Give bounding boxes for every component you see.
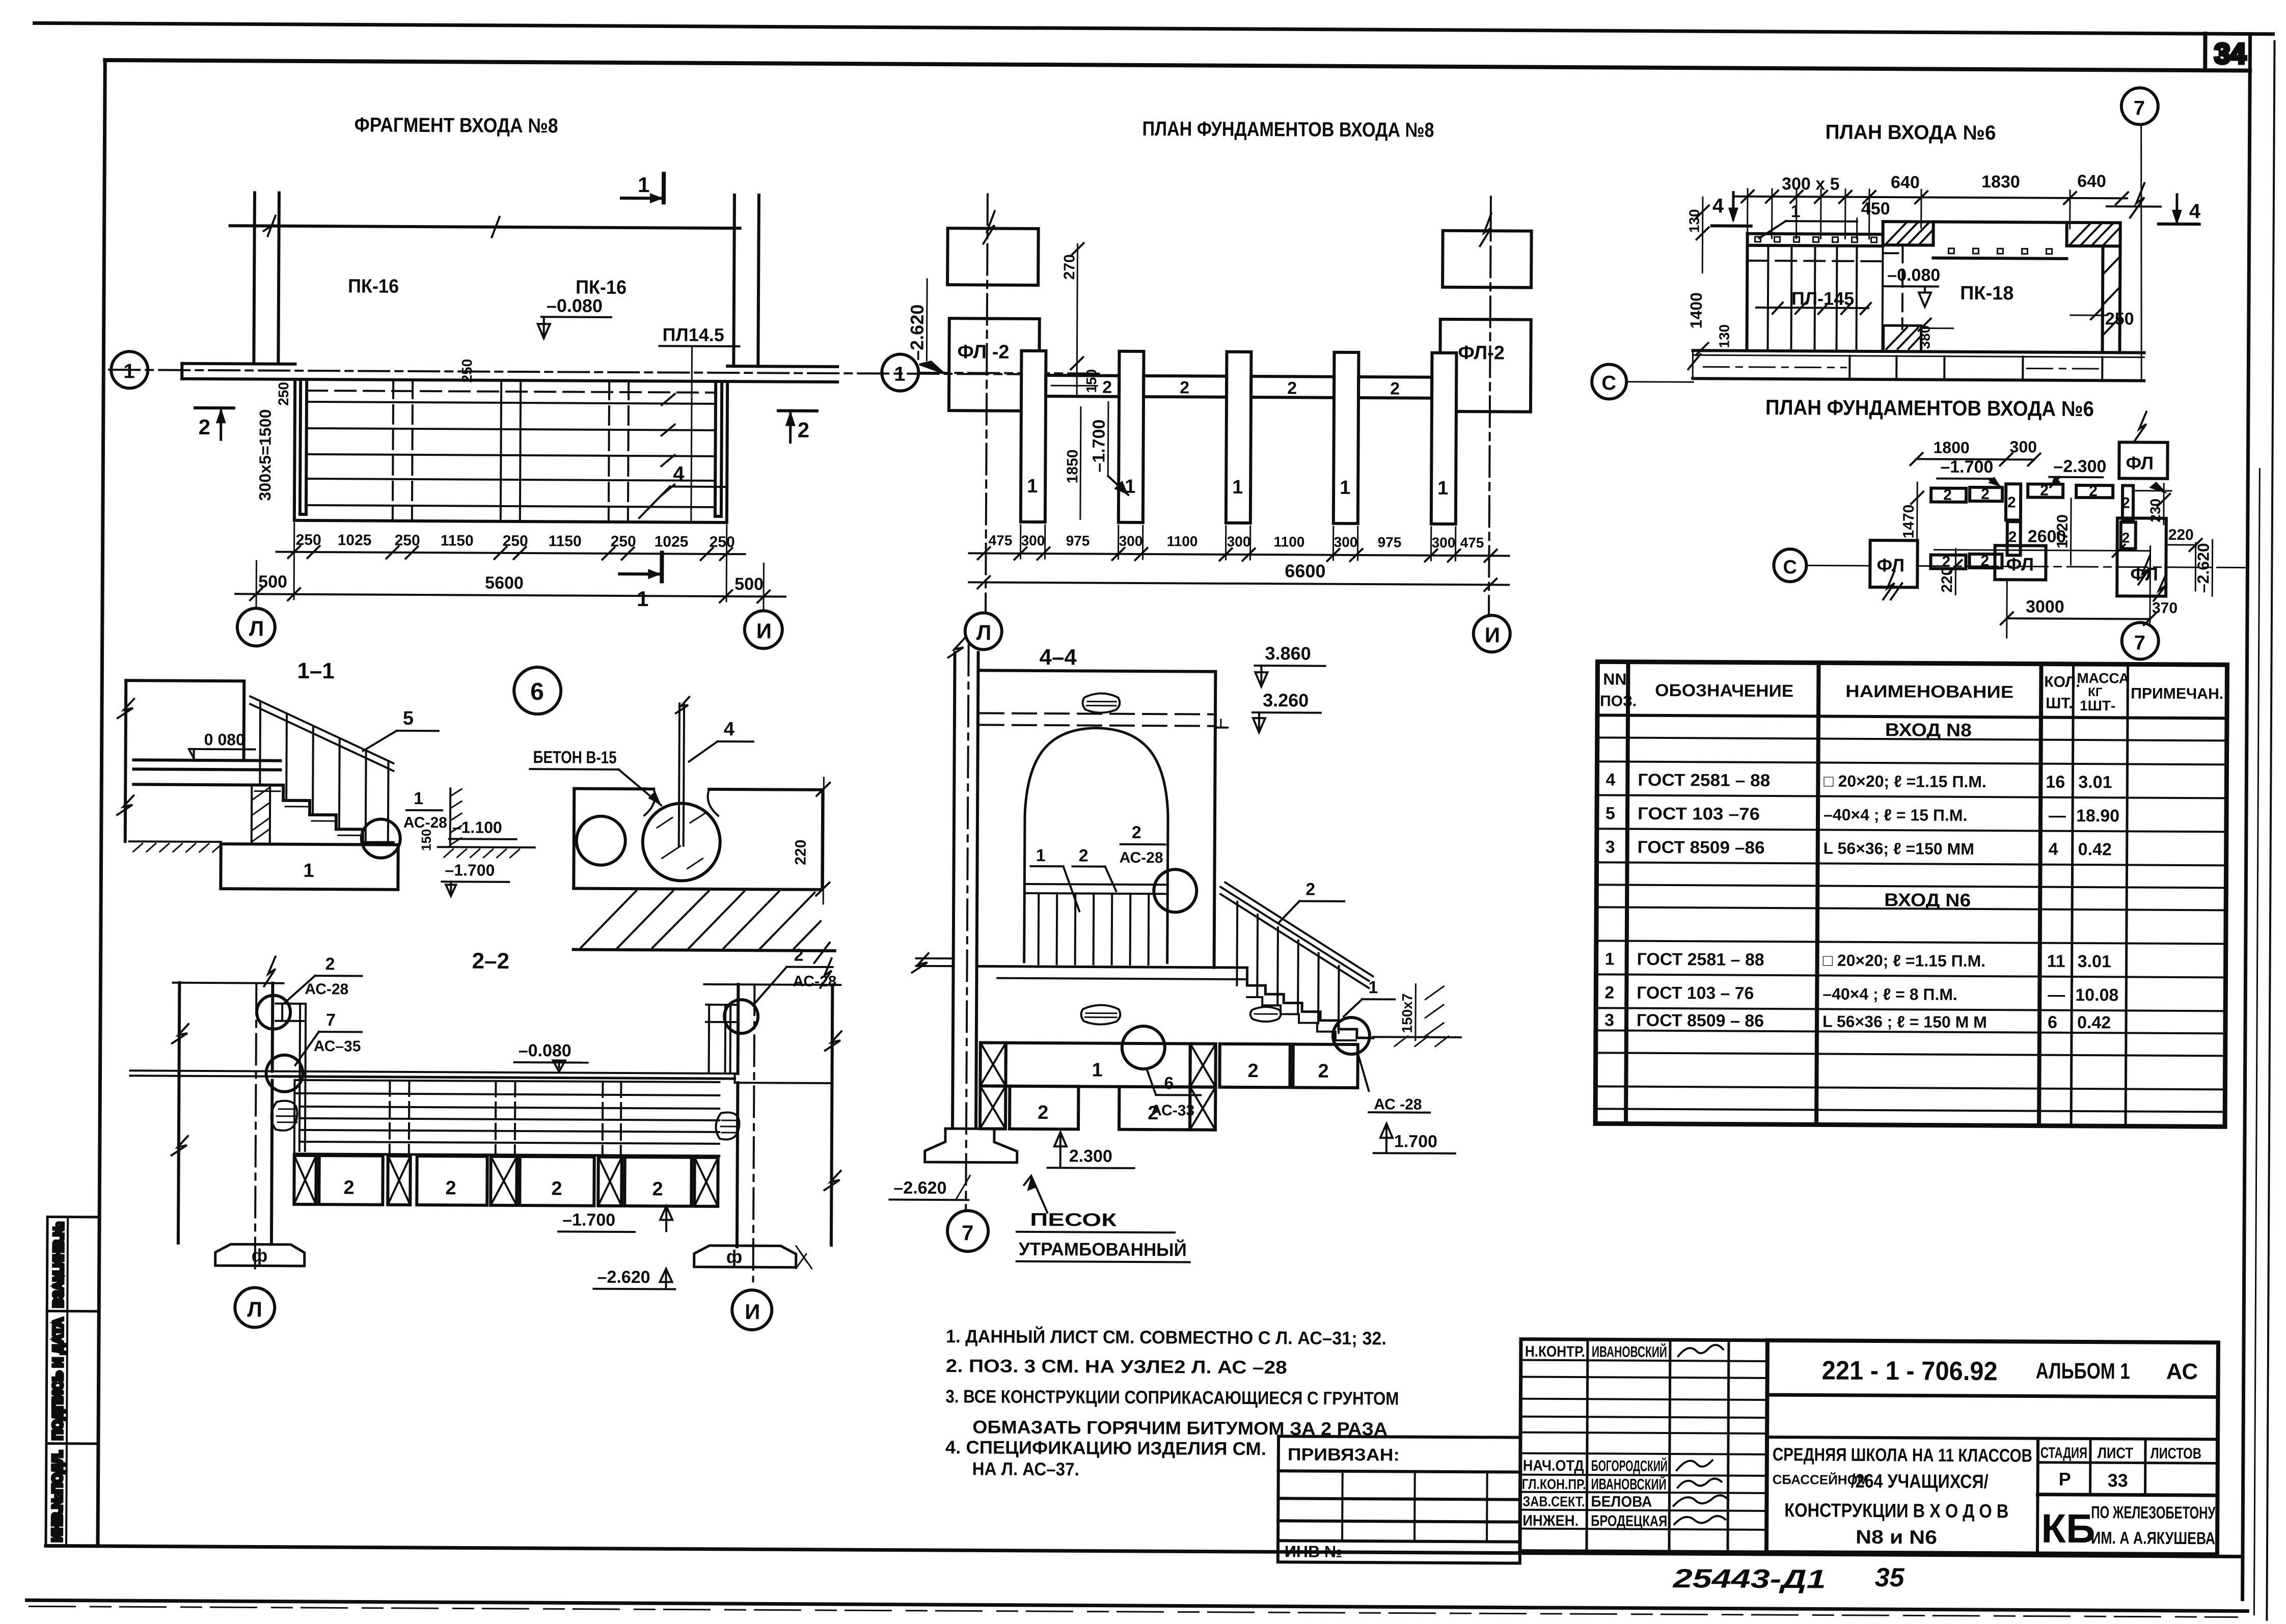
sig rows (1521, 1360, 1767, 1361)
svg-text:ПЛ14.5: ПЛ14.5 (663, 324, 724, 345)
svg-text:ЛИСТ: ЛИСТ (2098, 1445, 2133, 1462)
dashed boundary (1901, 245, 1904, 329)
svg-text:NN: NN (1603, 670, 1626, 688)
svg-text:1: 1 (1036, 846, 1046, 865)
svg-text:ИНЖЕН.: ИНЖЕН. (1522, 1512, 1579, 1530)
svg-text:2: 2 (1180, 378, 1189, 397)
svg-text:2. ПОЗ. 3 СМ. НА УЗЛЕ2 Л. АС: 2. ПОЗ. 3 СМ. НА УЗЛЕ2 Л. АС –28 (946, 1355, 1287, 1378)
ground line right + hatch (438, 846, 535, 848)
svg-text:Р: Р (2059, 1469, 2071, 1490)
svg-text:1150: 1150 (441, 532, 474, 549)
axis circle 7 (947, 1210, 988, 1251)
pillar 1 (1021, 351, 1046, 522)
svg-text:2: 2 (1943, 487, 1952, 504)
svg-text:ПОЗ.: ПОЗ. (1600, 693, 1637, 709)
right column bar (2122, 485, 2133, 519)
svg-text:ГОСТ 8509 –86: ГОСТ 8509 –86 (1638, 838, 1765, 858)
row 4 (1605, 770, 2112, 792)
strip row line 1 (47, 1310, 99, 1312)
svg-text:НА Л. АС–37.: НА Л. АС–37. (972, 1458, 1079, 1479)
svg-text:АС: АС (2166, 1359, 2198, 1384)
svg-text:1: 1 (638, 173, 650, 197)
svg-text:ИВАНОВСКИЙ: ИВАНОВСКИЙ (1592, 1343, 1667, 1361)
svg-text:ГОСТ 103 – 76: ГОСТ 103 – 76 (1637, 983, 1754, 1003)
svg-text:6: 6 (530, 678, 544, 705)
page number cell divider (2203, 34, 2207, 70)
svg-text:1: 1 (1340, 477, 1350, 499)
hatched wall block top right (2067, 223, 2120, 246)
svg-text:2: 2 (2089, 483, 2098, 500)
section cut mark 1 (bottom) (619, 572, 658, 575)
svg-text:2.300: 2.300 (1069, 1146, 1112, 1166)
table outer border (1595, 662, 2227, 1126)
svg-text:4: 4 (2049, 840, 2058, 859)
svg-text:220: 220 (2168, 527, 2194, 543)
anchor pocket circle (642, 803, 720, 881)
svg-text:4–4: 4–4 (1039, 645, 1077, 670)
svg-text:ГОСТ 8509 – 86: ГОСТ 8509 – 86 (1637, 1011, 1764, 1031)
svg-text:АС-28: АС-28 (403, 814, 447, 831)
svg-text:БРОДЕЦКАЯ: БРОДЕЦКАЯ (1591, 1512, 1667, 1530)
svg-text:ФЛ-2: ФЛ-2 (1458, 342, 1505, 364)
svg-text:–2.620: –2.620 (2194, 543, 2212, 593)
axis circle Л (237, 608, 275, 646)
bars right of middle (2028, 484, 2063, 497)
wall right edge (1214, 672, 1216, 968)
slab section (574, 787, 654, 791)
svg-text:2: 2 (325, 954, 335, 974)
svg-text:2: 2 (1079, 846, 1088, 865)
svg-text:1025: 1025 (655, 533, 689, 550)
svg-text:–2.620: –2.620 (597, 1268, 650, 1287)
axis circle Л (965, 613, 1002, 649)
svg-text:270: 270 (1061, 254, 1078, 280)
svg-text:ЛИСТОВ: ЛИСТОВ (2151, 1445, 2201, 1462)
header bottom (1597, 715, 2227, 718)
FL-2 square right (1440, 319, 1531, 412)
svg-text:4: 4 (1605, 770, 1615, 789)
sheet right edge (2267, 41, 2274, 1620)
svg-text:□ 20×20; ℓ =1.15 П.М.: □ 20×20; ℓ =1.15 П.М. (1824, 772, 1986, 791)
detail circle АС-28 right (724, 1000, 758, 1033)
svg-text:НАЧ.ОТД: НАЧ.ОТД (1523, 1457, 1584, 1475)
svg-text:1: 1 (894, 363, 905, 386)
svg-text:L 56×36; ℓ =150 ММ: L 56×36; ℓ =150 ММ (1824, 839, 1974, 858)
axis vertical right (1489, 197, 1491, 615)
cut mark 2 right (778, 409, 817, 412)
right wall vertical hatched (2102, 246, 2103, 352)
column line 1 (1626, 662, 1628, 1124)
ground hatch left (129, 840, 221, 843)
svg-text:250: 250 (276, 382, 291, 406)
svg-text:370: 370 (2152, 600, 2178, 617)
svg-text:2: 2 (2040, 482, 2049, 499)
axis vertical left (986, 194, 988, 613)
stair band (294, 1080, 719, 1082)
svg-text:300: 300 (2009, 437, 2037, 456)
svg-text:221 - 1 - 706.92: 221 - 1 - 706.92 (1822, 1356, 1998, 1387)
detail circle arch rail (1154, 869, 1196, 912)
svg-text:ПРИВЯЗАН:: ПРИВЯЗАН: (1288, 1445, 1400, 1465)
svg-text:2: 2 (1102, 378, 1112, 397)
svg-text:ПЕСОК: ПЕСОК (1030, 1209, 1118, 1230)
svg-text:АС-28: АС-28 (305, 981, 348, 998)
right railing post detail (706, 1004, 738, 1006)
svg-text:130: 130 (1717, 324, 1732, 348)
svg-text:4: 4 (724, 719, 734, 740)
svg-text:1830: 1830 (1981, 172, 2020, 191)
railing rails (250, 696, 394, 763)
hollow core circle (577, 816, 625, 865)
frame bottom line (46, 1546, 2243, 1556)
dim row 1 values (296, 532, 735, 550)
svg-text:АС-28: АС-28 (793, 973, 836, 990)
right wall (733, 195, 734, 366)
svg-text:33: 33 (2108, 1470, 2128, 1491)
svg-text:–0.080: –0.080 (1887, 265, 1940, 285)
stair tread verticals (1767, 245, 1770, 348)
svg-text:2: 2 (1305, 880, 1315, 899)
svg-text:АС–35: АС–35 (314, 1038, 361, 1055)
column footing (925, 1128, 1017, 1163)
svg-text:5600: 5600 (485, 573, 524, 593)
svg-text:18.90: 18.90 (2076, 806, 2119, 825)
stone blob under stairs (1250, 1007, 1281, 1022)
foundation block (221, 844, 398, 890)
svg-text:1720: 1720 (2054, 514, 2071, 548)
ledge left of wall (916, 957, 954, 959)
svg-text:—: — (2049, 806, 2066, 825)
svg-text:БЕЛОВА: БЕЛОВА (1591, 1493, 1652, 1510)
privyazan grid cols (1341, 1471, 1344, 1541)
svg-text:ПК-18: ПК-18 (1960, 283, 2014, 305)
column line 2 (1816, 663, 1818, 1124)
right rail strip (715, 384, 716, 516)
top dim line (1735, 197, 2127, 199)
FL-2 square left (949, 318, 1040, 411)
bar row upper: 2,2 (1931, 488, 1966, 502)
svg-text:975: 975 (1066, 533, 1090, 548)
node circle 6 (514, 667, 561, 714)
pillar 5 (1431, 353, 1457, 524)
svg-text:СТАДИЯ: СТАДИЯ (2040, 1445, 2087, 1462)
svg-text:–0.080: –0.080 (547, 295, 603, 316)
baluster squares right (1948, 249, 2052, 254)
svg-text:–40×4 ; ℓ = 15 П.М.: –40×4 ; ℓ = 15 П.М. (1824, 806, 1968, 824)
svg-text:300 x 5: 300 x 5 (1782, 174, 1840, 194)
axis circle И (1474, 615, 1510, 652)
svg-text:220: 220 (1939, 567, 1955, 593)
svg-text:N8 и N6: N8 и N6 (1856, 1527, 1937, 1549)
svg-text:□ 20×20; ℓ =1.15 П.М.: □ 20×20; ℓ =1.15 П.М. (1823, 951, 1986, 971)
svg-text:АС-28: АС-28 (1120, 849, 1163, 866)
steps (1247, 968, 1374, 1038)
svg-text:6600: 6600 (1285, 560, 1325, 581)
detail circle (362, 819, 400, 858)
svg-text:35: 35 (1875, 1563, 1905, 1592)
section cut mark 1 (top) (621, 197, 660, 200)
right wall outline (737, 984, 740, 1074)
svg-text:1: 1 (1791, 202, 1801, 221)
slab top lines (130, 1070, 738, 1074)
right footing (694, 1246, 796, 1268)
svg-text:0 080: 0 080 (204, 730, 245, 749)
stair dashed top line (1747, 261, 1883, 261)
tie bar 4 (1358, 377, 1432, 398)
svg-text:АС -28: АС -28 (1374, 1096, 1422, 1113)
middle FL box (1995, 545, 2046, 580)
top wall line with breaks (230, 226, 740, 228)
svg-text:ФЛ: ФЛ (2006, 554, 2034, 574)
svg-text:2–2: 2–2 (472, 949, 509, 974)
svg-text:300: 300 (1432, 535, 1456, 550)
svg-text:3: 3 (1604, 1010, 1614, 1030)
svg-text:300: 300 (1227, 534, 1251, 549)
axis circle 7 top (2121, 88, 2158, 124)
svg-text:2: 2 (652, 1178, 663, 1200)
svg-text:КБ: КБ (2041, 1506, 2095, 1552)
svg-text:–0.080: –0.080 (519, 1041, 571, 1061)
outer top sheet line (35, 23, 2273, 34)
frame left vertical (98, 60, 105, 1546)
svg-text:7: 7 (326, 1010, 336, 1030)
right wall axis (753, 984, 755, 1281)
hatched blob left (271, 1101, 297, 1131)
svg-text:7: 7 (2134, 97, 2145, 119)
svg-text:СРЕДНЯЯ ШКОЛА НА 11 КЛАССОВ: СРЕДНЯЯ ШКОЛА НА 11 КЛАССОВ (1773, 1444, 2032, 1466)
svg-text:1ШТ-: 1ШТ- (2080, 698, 2115, 713)
ground hatch column right of stairs (449, 788, 452, 846)
svg-text:/264 УЧАЩИХСЯ/: /264 УЧАЩИХСЯ/ (1851, 1471, 1989, 1493)
pillar 3 (1226, 352, 1251, 523)
base hatched band (574, 950, 835, 951)
left rail strip (300, 382, 301, 514)
svg-text:1100: 1100 (1274, 534, 1305, 549)
row 3b (1604, 1010, 2111, 1032)
left FL box (1870, 540, 1917, 587)
cut mark 2 left (195, 406, 234, 409)
pillar 4 (1333, 352, 1359, 524)
svg-text:6: 6 (1164, 1074, 1174, 1093)
svg-text:Л: Л (249, 616, 264, 640)
svg-text:2: 2 (1247, 1060, 1258, 1082)
svg-text:1.700: 1.700 (1394, 1132, 1437, 1151)
svg-text:150: 150 (419, 829, 434, 851)
arch opening (1024, 728, 1168, 962)
svg-text:1: 1 (123, 360, 134, 382)
svg-text:2: 2 (199, 415, 211, 439)
svg-text:ИВАНОВСКИЙ: ИВАНОВСКИЙ (1591, 1475, 1667, 1493)
svg-text:1: 1 (1368, 978, 1378, 997)
sig col 3 (1728, 1340, 1729, 1552)
svg-text:500: 500 (734, 574, 764, 594)
column line 4 (2071, 664, 2073, 1126)
sig col 1 (1587, 1339, 1588, 1551)
svg-text:Л: Л (976, 620, 992, 644)
row 5 (1605, 804, 2119, 825)
stage header columns (2037, 1439, 2038, 1554)
svg-text:300: 300 (1021, 533, 1045, 548)
hatched blob right (716, 1112, 739, 1139)
svg-text:–2.300: –2.300 (2053, 457, 2106, 477)
railing inside arch (1024, 884, 1167, 885)
landing slab (134, 760, 281, 760)
left wall (254, 192, 255, 364)
axis dash line (109, 370, 1031, 374)
row 2 (1604, 983, 2118, 1005)
svg-text:ИНВ №: ИНВ № (1285, 1542, 1343, 1561)
svg-text:ПО ЖЕЛЕЗОБЕТОНУ: ПО ЖЕЛЕЗОБЕТОНУ (2091, 1503, 2216, 1523)
svg-text:150x7: 150x7 (1399, 994, 1415, 1033)
pillar 2 (1119, 351, 1144, 522)
frame right vertical (2243, 34, 2250, 1600)
ledge left (182, 364, 295, 364)
baluster squares left (1755, 237, 1877, 242)
svg-text:2: 2 (1981, 486, 1990, 503)
tread lines (307, 391, 716, 393)
svg-text:–40×4 ; ℓ = 8 П.М.: –40×4 ; ℓ = 8 П.М. (1822, 985, 1957, 1004)
svg-text:НАИМЕНОВАНИЕ: НАИМЕНОВАНИЕ (1845, 682, 2013, 702)
detail circle АС-28 left (257, 995, 290, 1029)
svg-text:—: — (2048, 985, 2065, 1005)
svg-text:3.860: 3.860 (1265, 643, 1311, 664)
svg-text:ЗАВ.СЕКТ.: ЗАВ.СЕКТ. (1522, 1494, 1585, 1510)
svg-text:ГЛ.КОН.ПР.: ГЛ.КОН.ПР. (1522, 1476, 1586, 1493)
lower bar row: 2,2 (1930, 555, 1966, 569)
svg-text:1400: 1400 (1687, 292, 1705, 328)
balusters outside (1236, 902, 1238, 985)
detail circle 6 АС-33 (1122, 1026, 1165, 1069)
svg-text:10.08: 10.08 (2075, 985, 2118, 1005)
svg-text:2: 2 (2008, 529, 2017, 545)
svg-text:2: 2 (2121, 494, 2130, 511)
svg-text:1: 1 (1027, 476, 1038, 497)
svg-text:4. СПЕЦИФИКАЦИЮ ИЗДЕЛИЯ СМ.: 4. СПЕЦИФИКАЦИЮ ИЗДЕЛИЯ СМ. (945, 1437, 1266, 1459)
svg-text:2: 2 (2007, 494, 2016, 511)
outside stair railing (1220, 887, 1369, 981)
strip row line 2 (46, 1442, 98, 1445)
svg-text:–1.700: –1.700 (1089, 419, 1109, 472)
svg-text:ф: ф (726, 1246, 743, 1267)
level 2.300 arrow (1059, 1136, 1062, 1167)
svg-text:БЕТОН В-15: БЕТОН В-15 (533, 748, 616, 767)
svg-text:5: 5 (1605, 804, 1615, 823)
svg-text:250: 250 (2105, 309, 2134, 328)
svg-text:300x5=1500: 300x5=1500 (256, 409, 275, 501)
svg-text:3.01: 3.01 (2078, 952, 2111, 971)
bottom dim values (989, 533, 1484, 551)
svg-text:–1.700: –1.700 (1940, 457, 1993, 477)
detail circle АС-28 at block (1333, 1017, 1370, 1054)
svg-text:ШТ.: ШТ. (2046, 695, 2073, 712)
dim line row1 (277, 552, 745, 554)
bottom wall band (1693, 350, 2144, 352)
svg-text:ВХОД N6: ВХОД N6 (1884, 889, 1971, 911)
svg-text:4: 4 (2189, 200, 2201, 223)
header texts (1600, 668, 2223, 714)
svg-text:2: 2 (1604, 983, 1614, 1002)
svg-text:0.42: 0.42 (2078, 840, 2112, 859)
svg-text:3000: 3000 (2026, 597, 2064, 616)
svg-text:ПРИМЕЧАН.: ПРИМЕЧАН. (2131, 685, 2223, 702)
svg-text:ПОДПИСЬ И ДАТА: ПОДПИСЬ И ДАТА (50, 1318, 66, 1440)
signature table (1520, 1339, 1767, 1552)
FL box top right (2119, 442, 2167, 478)
strip border (46, 1217, 99, 1546)
left wall outline (178, 983, 179, 1243)
svg-text:1150: 1150 (549, 533, 582, 549)
dim line (1916, 459, 2034, 459)
middle vertical bars (2006, 484, 2021, 520)
svg-text:ГОСТ 2581 – 88: ГОСТ 2581 – 88 (1637, 950, 1764, 970)
svg-text:–1.100: –1.100 (452, 818, 502, 836)
axis circle Л (235, 1287, 275, 1327)
axis circle 1 (111, 351, 148, 388)
axis C with circle (1592, 364, 1626, 399)
ground hatch right of stairs (1373, 1036, 1461, 1038)
svg-text:ИМ. А А.ЯКУШЕВА: ИМ. А А.ЯКУШЕВА (2091, 1528, 2215, 1548)
hatch ticks in PL14.5 column (661, 394, 675, 496)
column axis (966, 645, 968, 1211)
svg-text:И: И (1485, 623, 1500, 647)
svg-text:2: 2 (1318, 1061, 1328, 1082)
dim line row2 (235, 594, 785, 596)
svg-text:640: 640 (2077, 172, 2106, 191)
svg-text:2: 2 (1390, 379, 1400, 398)
svg-text:ФЛ: ФЛ (2126, 452, 2154, 473)
top column rect left (947, 228, 1039, 285)
svg-text:УТРАМБОВАННЫЙ: УТРАМБОВАННЫЙ (1019, 1238, 1187, 1260)
bottom-left corner hatched block (1883, 325, 1921, 351)
svg-text:130: 130 (1686, 209, 1702, 233)
stamp row line 1 (1767, 1395, 2218, 1397)
foundation row 2 (980, 1086, 1005, 1128)
row 3 (1605, 837, 2112, 859)
svg-text:7: 7 (2134, 631, 2145, 654)
axis dash horizontal (1917, 566, 2245, 567)
top column rect right (1443, 231, 1532, 288)
ledge right (727, 366, 837, 367)
svg-text:16: 16 (2046, 773, 2065, 792)
svg-text:1025: 1025 (338, 532, 372, 548)
svg-text:Л: Л (247, 1297, 262, 1321)
axis circle 1 (882, 354, 918, 391)
svg-text:1800: 1800 (1933, 438, 1969, 457)
svg-text:–1.700: –1.700 (445, 861, 495, 879)
divider columns dashed (393, 380, 393, 521)
svg-text:ОБОЗНАЧЕНИЕ: ОБОЗНАЧЕНИЕ (1655, 681, 1793, 701)
svg-text:1850: 1850 (1064, 449, 1081, 483)
balusters (259, 703, 261, 785)
column line 5 (2126, 664, 2128, 1126)
svg-text:640: 640 (1891, 173, 1920, 192)
extension lines (255, 561, 257, 609)
svg-text:И: И (745, 1300, 760, 1324)
pocket funnel (644, 789, 718, 816)
left footing (215, 1244, 305, 1266)
bottom dim line (969, 553, 1509, 556)
svg-text:2: 2 (551, 1178, 562, 1199)
parapet dashed lines (980, 713, 1215, 714)
svg-text:ф: ф (252, 1245, 268, 1265)
wall hatch под landing (252, 785, 270, 842)
svg-text:ПЛ-145: ПЛ-145 (1791, 288, 1854, 309)
svg-text:ПЛАН ФУНДАМЕНТОВ ВХОДА №8: ПЛАН ФУНДАМЕНТОВ ВХОДА №8 (1142, 118, 1434, 142)
svg-text:3: 3 (1605, 837, 1615, 857)
svg-text:34: 34 (2214, 37, 2246, 69)
axis 7 vertical line (2140, 125, 2142, 379)
svg-text:1: 1 (303, 860, 314, 882)
